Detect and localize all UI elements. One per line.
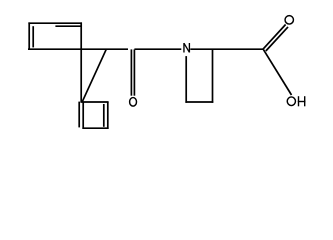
atom label O (amide carbonyl)	[130, 98, 137, 107]
ring A left double-bond inner line	[32, 26, 34, 47]
carboxyl C=O main line	[263, 25, 285, 49]
ring B left double-bond outer line	[78, 102, 80, 128]
ring B left bond (C=C)	[82, 102, 84, 129]
amide C=O main line	[133, 49, 135, 95]
ring A top bond	[28, 22, 82, 24]
azetidine right bond (C2-C3)	[212, 49, 214, 103]
bond N to azetidine C2 and on to carboxyl C	[190, 48, 263, 50]
atom label H of OH	[298, 96, 306, 106]
carboxyl C=O second line	[266, 27, 288, 51]
ring B right bond (C=C)	[107, 102, 109, 129]
azetidine left bond (N-C4)	[185, 56, 187, 103]
ring A top double-bond inner line	[55, 25, 81, 27]
atom label O (carboxyl C=O)	[285, 16, 293, 24]
carboxyl C-OH bond	[263, 49, 291, 95]
amide C=O second line	[130, 49, 132, 95]
atom label N (azetidine nitrogen)	[184, 43, 189, 53]
atom label O of OH (carboxyl hydroxyl)	[287, 97, 295, 106]
ring A left bond (C=C)	[28, 22, 30, 50]
ring A bottom bond / chain to carbonyl C	[28, 48, 128, 50]
ring B right double-bond inner line	[103, 104, 105, 127]
ring B top bond	[81, 101, 108, 103]
azetidine bottom bond (C3-C4)	[185, 101, 213, 103]
ring B bottom bond	[82, 127, 108, 129]
ring A right bond / long vertical to ring B	[80, 22, 82, 102]
diagonal ring-fusion bond	[82, 49, 106, 102]
bond carbonyl C to N	[134, 48, 181, 50]
